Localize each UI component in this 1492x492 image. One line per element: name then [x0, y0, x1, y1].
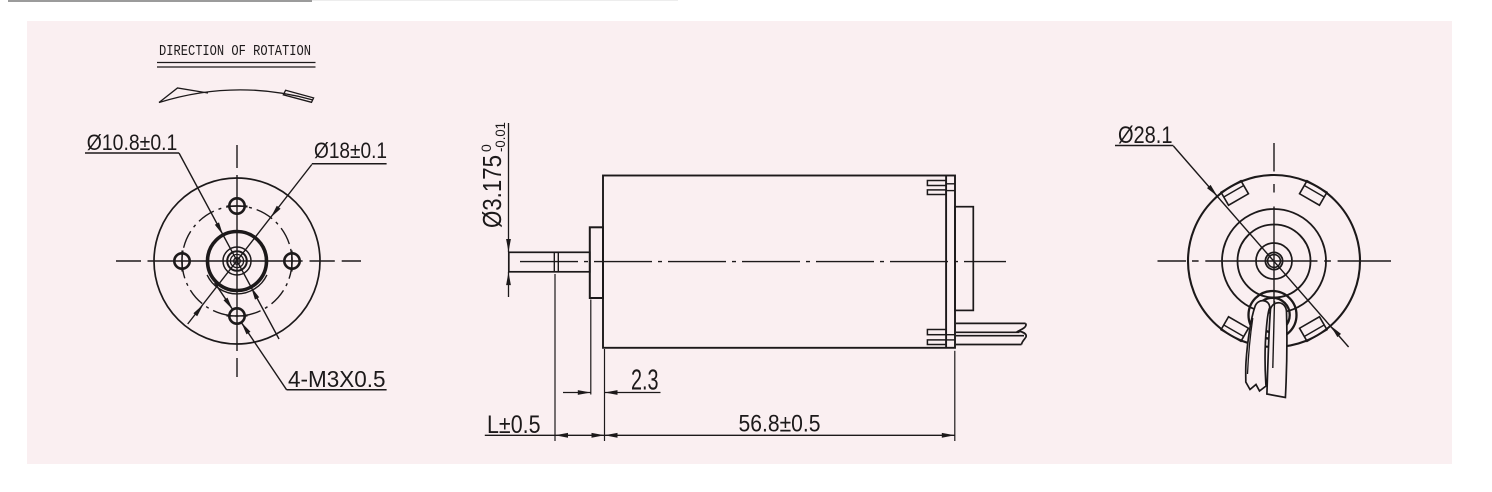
front view vertical centerline [236, 145, 238, 377]
screw hole top [229, 198, 244, 213]
extension line from shaft tick [554, 274, 556, 441]
title underline upper [157, 62, 316, 64]
dim L left arrow [555, 433, 568, 438]
rear horizontal centerline [1158, 260, 1392, 262]
shaft step tick 1 [553, 252, 555, 271]
grommet inner ring [1255, 298, 1289, 332]
bolt circle arc at left hole [182, 251, 183, 272]
rear outer circle [1188, 175, 1360, 347]
svg-text:2.3: 2.3 [631, 364, 659, 396]
cap ring crossing bottom 2 [946, 339, 955, 341]
bolt circle arc at bottom hole [227, 315, 248, 316]
D18 dimension line [188, 165, 312, 325]
D28.1 arrow upper-left [1207, 185, 1217, 196]
extension line body left [604, 349, 606, 441]
shaft step tick 2 [557, 252, 559, 271]
cap ring crossing bottom 1 [946, 334, 955, 336]
lead wires side view [956, 323, 1026, 344]
motor body outline [603, 176, 955, 348]
rotation arrow head [159, 88, 208, 103]
svg-text:Ø18±0.1: Ø18±0.1 [314, 138, 387, 163]
bearing circle r7 [230, 254, 243, 267]
front bearing boss [590, 227, 603, 298]
wire grommet outer ring [1249, 291, 1297, 339]
D28.1 dimension line [1173, 146, 1348, 347]
shaft [509, 252, 590, 271]
bearing circle r10 [227, 251, 247, 271]
lead wire right [1267, 303, 1287, 398]
svg-text:-0.01: -0.01 [492, 122, 508, 152]
rear boss rectangle [955, 207, 973, 311]
centerline dash-dot [520, 261, 1006, 263]
svg-text:56.8±0.5: 56.8±0.5 [739, 410, 821, 437]
dim 2.3 right line [605, 392, 661, 394]
wire middle crease [1273, 301, 1275, 368]
mounting tab lower-left [1221, 317, 1248, 341]
dim 2.3 left arrow [563, 392, 591, 394]
wire break symbol [1019, 323, 1027, 344]
screw hole left [174, 253, 189, 268]
4-M3X0.5 arrow upper [224, 298, 233, 310]
bolt circle arc at top hole [227, 206, 248, 207]
4-M3X0.5 leader line [241, 322, 286, 390]
bottom terminal tab 1 [927, 330, 946, 335]
4-M3X0.5 arrow lower [241, 322, 250, 334]
D18 arrow NE [271, 206, 281, 218]
D10.8 dimension line [179, 153, 279, 339]
svg-text:Ø10.8±0.1: Ø10.8±0.1 [87, 130, 178, 155]
label D3.175 with tolerance [477, 122, 508, 228]
bearing circle r14 [223, 247, 251, 275]
centerline gaps left view [141, 168, 342, 358]
title underline lower [157, 66, 316, 68]
svg-text:Ø3.175: Ø3.175 [477, 155, 507, 228]
dim 56.8 line [605, 434, 955, 436]
dim L line [485, 434, 605, 436]
lead wire left [1246, 301, 1270, 391]
rear hub circle r18 [1256, 243, 1292, 279]
bottom terminal tab 2 [927, 340, 946, 345]
rotation arrow arc [159, 90, 313, 103]
screw hole right [284, 253, 299, 268]
end cap ring line [945, 176, 947, 348]
thick boss circle (D10.8) [208, 232, 267, 291]
svg-text:L±0.5: L±0.5 [487, 411, 541, 439]
rear hub circle r6.4 [1268, 255, 1281, 268]
boss chamfer arc [207, 275, 267, 294]
extension line cap right [954, 351, 956, 441]
rear hub circle r8.6 [1265, 252, 1282, 269]
extension line boss left [590, 300, 592, 395]
rear circle r52 [1222, 209, 1326, 313]
D18 arrow SW [193, 305, 203, 317]
bolt circle dash-dot [182, 206, 292, 316]
svg-text:4-M3X0.5: 4-M3X0.5 [288, 366, 386, 392]
mounting tab upper-left [1221, 181, 1248, 205]
top grey loading bar [8, 0, 312, 2]
front outer circle [154, 178, 320, 344]
rear vertical centerline [1273, 143, 1275, 384]
top terminal tab 2 [927, 190, 946, 195]
mounting tab upper-right [1300, 181, 1327, 205]
dim L right arrow [592, 433, 605, 438]
D10.8 arrow SE [251, 287, 259, 300]
D10.8 arrow NW [215, 222, 223, 235]
dim 56.8 left arrow [605, 433, 618, 438]
rear circle r36.5 [1238, 225, 1311, 298]
D28.1 arrow lower-right [1331, 326, 1341, 337]
cap ring crossing top 1 [946, 183, 955, 185]
D3.175 dim line bottom [508, 272, 510, 297]
mounting tab lower-right [1300, 317, 1327, 341]
front view horizontal centerline [116, 260, 361, 262]
dim 56.8 right arrow [942, 433, 955, 438]
top terminal tab 1 [927, 181, 946, 186]
D3.175 dim line top [508, 123, 510, 252]
centerline gaps rear view [1186, 172, 1338, 263]
svg-text:DIRECTION OF ROTATION: DIRECTION OF ROTATION [159, 43, 311, 60]
wire left crease [1248, 318, 1253, 374]
cap ring crossing top 2 [946, 190, 955, 192]
screw hole bottom [229, 308, 244, 323]
bolt circle arc at right hole [291, 251, 292, 272]
shaft circle [234, 258, 241, 265]
rotation arrow tail flag [283, 90, 313, 102]
